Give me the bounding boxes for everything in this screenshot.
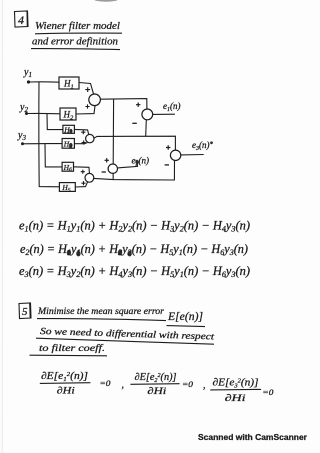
- plus sign S1 bottom: [85, 104, 89, 108]
- svg-text:∂E[e12(n)]: ∂E[e12(n)]: [41, 371, 88, 383]
- svg-text:Wiener filter model: Wiener filter model: [35, 20, 120, 32]
- watermark Scanned with CamScanner: [198, 432, 308, 442]
- overwrite blob on equation e2 subscript 3: [118, 250, 122, 256]
- svg-text:y1: y1: [23, 67, 32, 79]
- svg-text:Minimise the mean square error: Minimise the mean square error: [37, 307, 164, 317]
- wire y1 down to H5: [39, 82, 60, 187]
- wire E2 output: [118, 164, 138, 168]
- summing junction E1: [142, 109, 153, 120]
- svg-text:,: ,: [203, 380, 206, 391]
- svg-text:y3: y3: [17, 130, 26, 142]
- title line 2 "and error definition": [32, 36, 118, 48]
- wire S1 to E1: [100, 99, 146, 110]
- derivative fraction 3 numerator: [213, 378, 259, 390]
- svg-text:∂Hi: ∂Hi: [57, 387, 75, 397]
- scan artifact top edge: [94, 0, 118, 2]
- minus sign E1: [132, 122, 137, 124]
- svg-text:e3(n): e3(n): [192, 140, 210, 152]
- title underline 2: [31, 49, 120, 50]
- plus sign S2 bottom: [82, 140, 86, 144]
- equation e3: [19, 264, 250, 279]
- svg-text:e1(n): e1(n): [163, 101, 181, 113]
- svg-text:5: 5: [22, 306, 28, 318]
- derivative fraction 3 denominator: [225, 394, 247, 404]
- svg-text:Scanned with CamScanner: Scanned with CamScanner: [198, 432, 308, 442]
- wire H2 to S1: [76, 106, 95, 114]
- derivative fraction 2 numerator: [135, 372, 177, 384]
- block H1: [59, 77, 79, 90]
- label e2(n): [132, 156, 150, 168]
- equals zero 2: [182, 379, 194, 389]
- summing junction S1: [89, 94, 101, 106]
- svg-text:e2(n): e2(n): [132, 156, 150, 168]
- wire H4 to S2: [74, 143, 87, 144]
- overwrite blob on block H3 subscript: [69, 129, 72, 133]
- derivative fraction 1 numerator: [41, 371, 88, 383]
- svg-text:to filter coeff.: to filter coeff.: [39, 343, 105, 354]
- svg-text:,: ,: [122, 380, 125, 391]
- comma 2: [203, 380, 206, 391]
- wire y3 to H4: [23, 143, 63, 145]
- svg-text:=0: =0: [182, 379, 194, 389]
- block H2: [60, 108, 76, 121]
- wire y2 down to H3: [47, 114, 63, 130]
- derivative fraction 3 bar: [210, 388, 261, 391]
- svg-text:∂E[e32(n)]: ∂E[e32(n)]: [213, 378, 259, 390]
- wire S1 branch down to E2: [112, 99, 114, 164]
- overwrite blob on equation e2 subscript 1: [67, 250, 71, 256]
- equation e1: [19, 219, 250, 234]
- wire S3 bottom bus to E3: [94, 161, 175, 180]
- minus sign E2: [102, 171, 106, 173]
- wire H1 to junction S1: [79, 83, 94, 95]
- equals zero 3: [262, 387, 274, 397]
- plus sign S2 top: [81, 130, 85, 134]
- label e3(n): [192, 140, 210, 152]
- derivative fraction 2 denominator: [147, 387, 166, 397]
- plus sign E3: [166, 145, 170, 149]
- title line 1 "Wiener filter model": [35, 20, 120, 32]
- svg-text:So we need to differential wit: So we need to differential with respect: [40, 326, 215, 342]
- wire y3 down to H6: [45, 144, 62, 167]
- scan edge: [1, 0, 3, 453]
- wire E1 down to bus: [145, 120, 148, 136]
- index box 5: [19, 303, 31, 319]
- plus sign E2: [105, 158, 109, 162]
- derivative fraction 1 denominator: [57, 387, 75, 397]
- wire H6 to S3: [74, 167, 90, 174]
- svg-text:H6: H6: [63, 163, 72, 173]
- note underline 2: [36, 338, 214, 344]
- node y3 dot: [21, 142, 24, 145]
- summing junction S2: [86, 134, 94, 142]
- svg-text:∂Hi: ∂Hi: [147, 387, 166, 397]
- derivative fraction 2 bar: [130, 383, 179, 386]
- summing junction E2: [108, 164, 117, 173]
- minus sign E3: [165, 164, 169, 166]
- svg-text:e2(n) = H1y1(n) + H2y2(n) −: e2(n) = H1y1(n) + H2y2(n) − H5y1(n) − H6…: [20, 242, 248, 257]
- note line 1: [37, 307, 164, 317]
- svg-text:e3(n) = H3y2(n) + H4y3(n): e3(n) = H3y2(n) + H4y3(n) − H5y1(n) − H6…: [19, 264, 250, 279]
- index box 4: [15, 11, 29, 27]
- wire S2 to E3 bus: [94, 136, 175, 150]
- wire H3 to S2: [74, 129, 88, 134]
- svg-text:∂Hi: ∂Hi: [225, 394, 247, 404]
- note underline 3: [30, 354, 108, 357]
- summing junction E3: [170, 150, 180, 160]
- node y2 dot: [25, 112, 28, 115]
- wire E3 output: [181, 154, 204, 156]
- svg-text:E[e(n)]: E[e(n)]: [167, 309, 203, 323]
- note line 3: [39, 343, 105, 354]
- plus sign S3 bottom: [81, 181, 85, 185]
- wire y1 to H1: [29, 81, 60, 83]
- plus sign S1 top: [85, 87, 90, 92]
- wire E1 output: [153, 113, 175, 115]
- overwrite blob on equation e2 subscript 2: [76, 251, 80, 257]
- svg-text:∂E[e22(n)]: ∂E[e22(n)]: [135, 372, 177, 384]
- note underline E: [167, 326, 206, 327]
- node y3 label: [17, 130, 26, 142]
- wire y2 to H2: [27, 112, 61, 114]
- overwrite blob on equation e2 subscript 4: [127, 251, 131, 257]
- svg-text:and error definition: and error definition: [32, 36, 118, 48]
- summing junction S3: [85, 173, 94, 182]
- note underline 1: [37, 319, 166, 321]
- svg-text:=0: =0: [100, 378, 112, 388]
- equation e2: [20, 242, 248, 257]
- svg-text:=0: =0: [262, 387, 274, 397]
- title underline 1: [35, 32, 122, 35]
- svg-text:H5: H5: [61, 183, 70, 193]
- plus sign S3 top: [81, 170, 85, 174]
- equals zero 1: [100, 378, 112, 388]
- label e1(n): [163, 101, 181, 113]
- svg-text:4: 4: [18, 13, 24, 27]
- plus sign E1: [136, 103, 140, 107]
- note line 1 E[e(n)]: [167, 309, 203, 323]
- block H4: [62, 139, 74, 150]
- note line 2: [40, 326, 215, 342]
- overwrite blob on label e2 subscript: [135, 160, 138, 164]
- overwrite blob on block H4 subscript: [69, 143, 73, 148]
- wire E2 down to bottom bus: [112, 173, 114, 179]
- block H3: [63, 125, 75, 135]
- svg-text:e1(n) = H1y1(n) + H2y2(n) −: e1(n) = H1y1(n) + H2y2(n) − H3y2(n) − H4…: [19, 219, 250, 234]
- node y1 dot: [27, 80, 30, 83]
- node y1 label: [23, 67, 32, 79]
- block H6: [62, 162, 73, 173]
- stray dot after e3 label: [210, 141, 213, 144]
- comma 1: [122, 380, 125, 391]
- wire H5 to S3: [75, 182, 87, 187]
- node y2 label: [19, 102, 28, 114]
- block H5: [59, 183, 75, 194]
- derivative fraction 1 bar: [40, 382, 91, 385]
